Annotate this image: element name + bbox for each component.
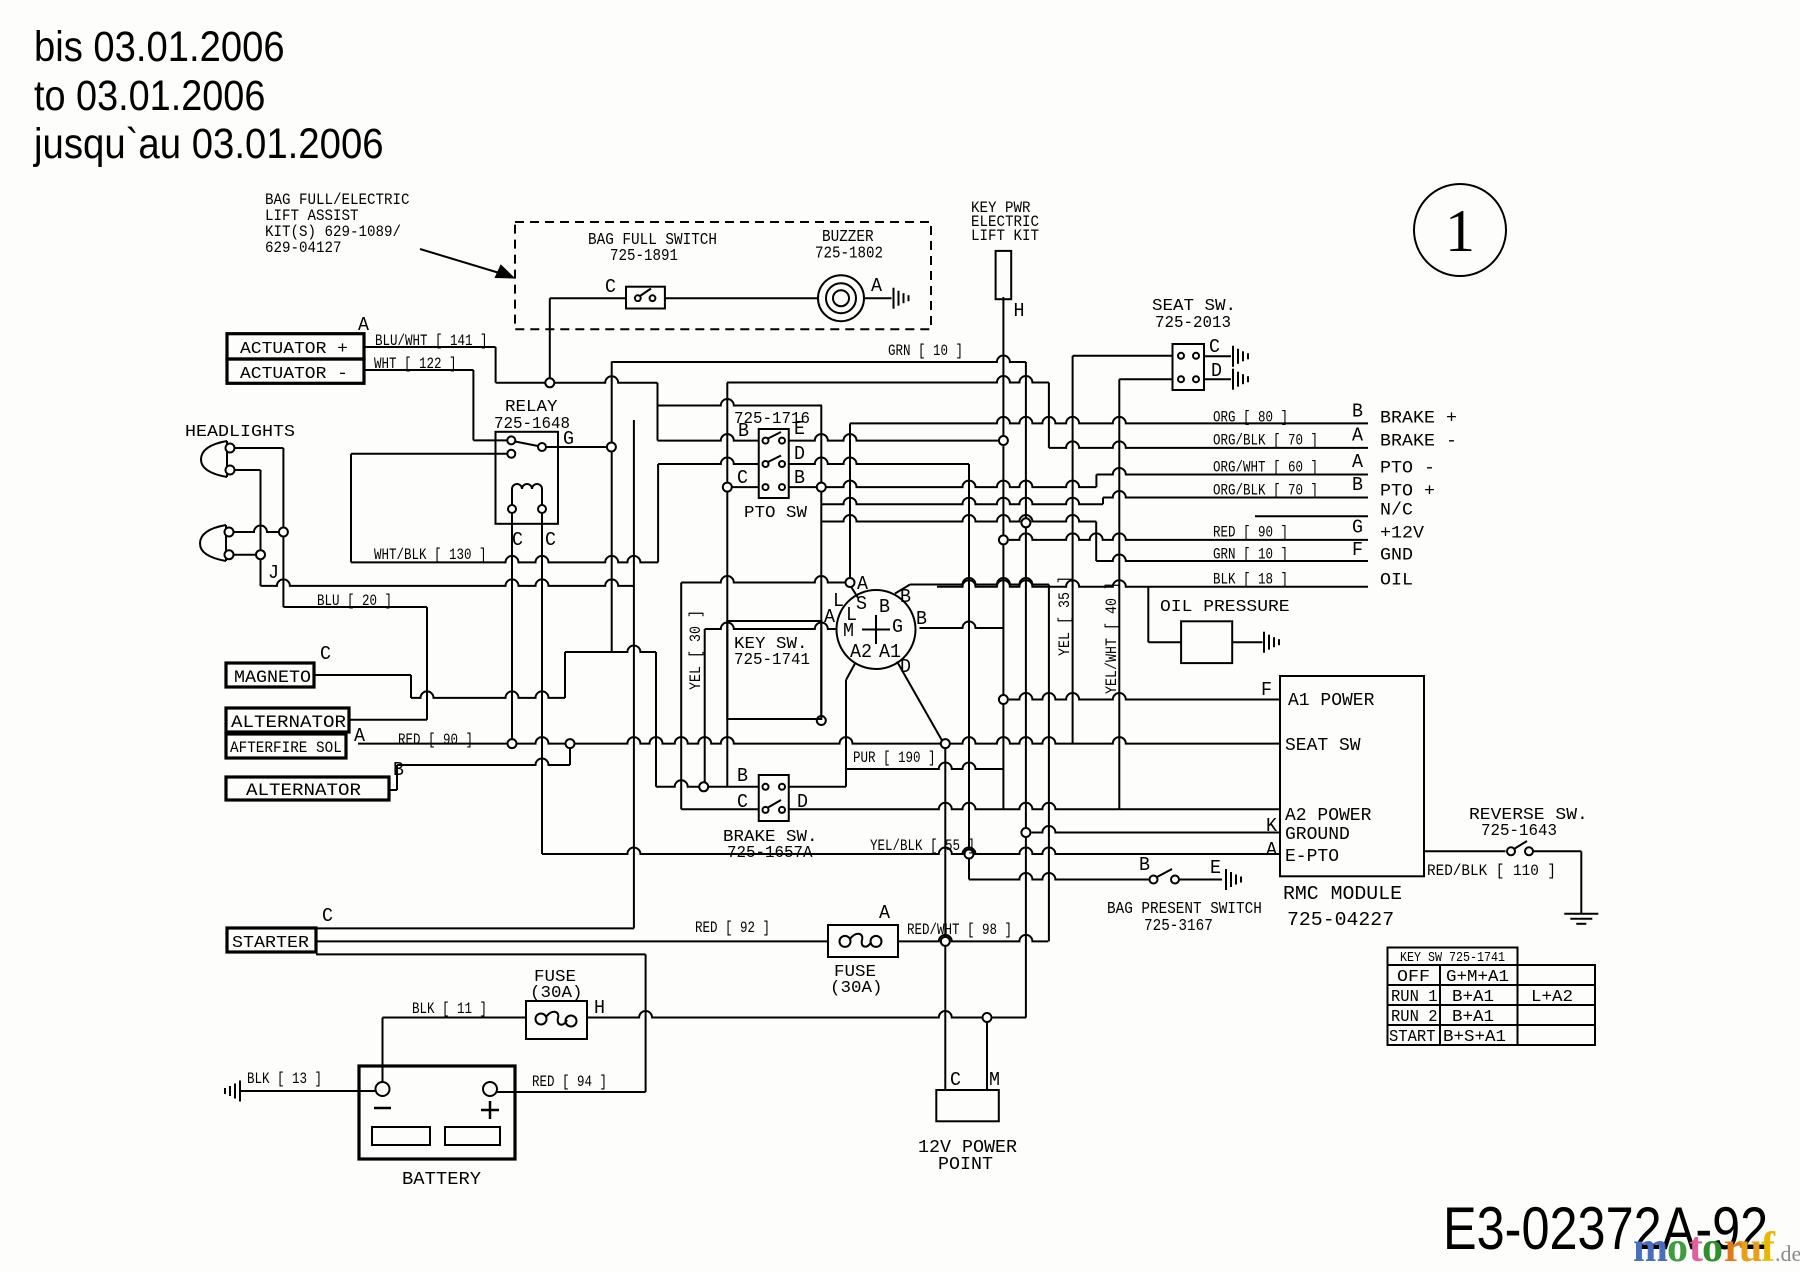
wire jog ORG/WHT [60] xyxy=(1095,475,1097,488)
wire headlight common (bottom) to J xyxy=(260,555,262,586)
svg-text:B: B xyxy=(794,467,805,489)
svg-text:B+S+A1: B+S+A1 xyxy=(1443,1027,1506,1046)
wire reverse switch to ground xyxy=(1580,851,1582,914)
key switch B pin diagonal xyxy=(895,585,910,594)
svg-text:B: B xyxy=(737,765,748,787)
node key switch A pin xyxy=(846,578,855,587)
wire GROUND K xyxy=(1032,826,1281,832)
svg-text:RUN 1: RUN 1 xyxy=(1391,987,1438,1006)
relay coil xyxy=(508,484,546,513)
wire bag full switch C drop xyxy=(549,298,551,383)
fuse 30A body 1 xyxy=(526,1001,587,1039)
svg-text:RED/WHT [ 98 ]: RED/WHT [ 98 ] xyxy=(907,921,1012,939)
magneto box xyxy=(226,663,314,687)
wire ORG/BLK [70] / BRAKE - xyxy=(1049,441,1368,448)
12V power point body xyxy=(936,1090,999,1121)
svg-text:725-1741: 725-1741 xyxy=(734,651,810,670)
svg-text:ACTUATOR +: ACTUATOR + xyxy=(240,340,348,359)
svg-text:GRN [ 10 ]: GRN [ 10 ] xyxy=(1213,546,1288,564)
svg-text:725-1643: 725-1643 xyxy=(1481,822,1557,841)
node bag full / actuator junction xyxy=(545,378,554,387)
wire RED [90] / +12V xyxy=(1009,533,1368,540)
ground seat D xyxy=(1233,369,1248,390)
brake switch 725-1657A body xyxy=(759,775,789,821)
svg-text:ORG/WHT [ 60 ]: ORG/WHT [ 60 ] xyxy=(1213,459,1318,477)
wire key switch A2 drop / PUR xyxy=(845,680,847,787)
wire headlight2 bottom xyxy=(234,554,261,556)
wire brake switch B right xyxy=(789,786,846,788)
wire key switch A xyxy=(681,576,844,583)
svg-text:BLK [ 11 ]: BLK [ 11 ] xyxy=(412,1000,487,1018)
svg-text:B+A1: B+A1 xyxy=(1452,1007,1494,1026)
svg-text:K: K xyxy=(1266,815,1278,837)
svg-text:A2 POWER: A2 POWER xyxy=(1285,806,1372,826)
wire relay coil C to YEL/BLK [55] xyxy=(541,509,543,854)
wire ORG [80] / BRAKE + xyxy=(850,417,1368,423)
buzzer 725-1802 symbol xyxy=(818,275,864,321)
svg-text:GRN [ 10 ]: GRN [ 10 ] xyxy=(888,342,963,360)
svg-text:A1: A1 xyxy=(879,641,901,663)
wire key switch M xyxy=(705,623,836,630)
svg-text:BLU/WHT [ 141 ]: BLU/WHT [ 141 ] xyxy=(375,332,488,350)
battery minus sign xyxy=(374,1107,391,1110)
svg-text:B: B xyxy=(738,420,749,442)
PTO switch body xyxy=(759,429,789,498)
wire BLK [18] / OIL xyxy=(937,580,1368,587)
wire PTO C ring down to key switch box corner xyxy=(820,487,822,720)
wire E-PTO to reverse switch xyxy=(1424,850,1506,852)
svg-text:D: D xyxy=(1211,360,1222,382)
svg-text:E-PTO: E-PTO xyxy=(1285,847,1339,867)
wire seat switch D ground xyxy=(1204,378,1231,380)
wire node to relay / bag full junction xyxy=(496,376,658,383)
svg-text:BRAKE +: BRAKE + xyxy=(1380,409,1457,429)
headlight lamp 2 xyxy=(200,525,234,561)
wire BLU/WHT [141] from actuator + xyxy=(364,346,496,348)
wire PTO row1 right to node xyxy=(789,434,998,440)
svg-text:L+A2: L+A2 xyxy=(1531,987,1573,1006)
node E-PTO tap xyxy=(965,850,974,859)
wire jog ORG/BLK [70] xyxy=(1102,498,1104,505)
svg-text:C: C xyxy=(605,276,616,298)
PTO switch enclosure left edge / key switch box bus xyxy=(726,383,728,787)
svg-text:BLK [ 18 ]: BLK [ 18 ] xyxy=(1213,571,1288,589)
wire starter C xyxy=(316,927,634,929)
wire seat switch C ground xyxy=(1204,355,1231,357)
svg-text:bis 03.01.2006: bis 03.01.2006 xyxy=(34,23,285,71)
wire ORG/WHT [60] / PTO - xyxy=(1096,468,1368,475)
wire PTO D / bag present bus xyxy=(968,464,970,880)
svg-text:E: E xyxy=(794,418,805,440)
wire elbow trunk to ORG/BLK [70] xyxy=(1048,383,1050,448)
svg-text:OIL PRESSURE: OIL PRESSURE xyxy=(1160,598,1290,617)
wire RED [90] / SEAT SW xyxy=(358,737,1280,743)
wire BLK [11] battery to fuse xyxy=(383,1017,527,1019)
reverse switch contacts xyxy=(1507,841,1533,855)
svg-text:C: C xyxy=(512,529,523,551)
node relay G junction xyxy=(607,443,616,452)
svg-text:A: A xyxy=(1266,839,1278,861)
wire key pwr lift kit bus xyxy=(1002,297,1004,809)
svg-text:G: G xyxy=(1352,517,1363,539)
svg-text:1: 1 xyxy=(1445,198,1475,264)
PTO switch contacts row1 xyxy=(763,432,786,444)
svg-text:C: C xyxy=(737,791,748,813)
svg-text:A: A xyxy=(824,606,836,628)
svg-text:BATTERY: BATTERY xyxy=(402,1170,481,1190)
key pwr lift kit body xyxy=(996,251,1012,299)
node A1 power tap xyxy=(999,695,1008,704)
wire seat switch D feed xyxy=(1119,378,1172,380)
wire YEL/WHT [40] bus / seat D xyxy=(1118,379,1120,809)
afterfire sol box xyxy=(226,734,346,758)
node RED [90] relay C junction xyxy=(508,739,517,748)
wire node line xyxy=(821,515,1096,522)
wire relay pin2 to WHT/BLK [130] xyxy=(350,454,352,563)
wire WHT [122] from actuator - xyxy=(364,369,473,371)
wire WHT/BLK [130] xyxy=(351,556,658,562)
wire headlight common (top) / BLU feed xyxy=(282,448,284,607)
wire bag full switch left xyxy=(550,297,626,299)
wire YEL [35] bus / seat C xyxy=(1072,356,1074,744)
battery box xyxy=(359,1066,515,1159)
svg-text:RED [ 94 ]: RED [ 94 ] xyxy=(532,1073,607,1091)
bag present switch contacts xyxy=(1150,869,1180,884)
svg-text:t: t xyxy=(1689,1225,1703,1271)
svg-text:E: E xyxy=(1210,857,1221,879)
svg-text:.de: .de xyxy=(1775,1241,1800,1266)
PTO switch contacts row2 xyxy=(763,456,786,468)
svg-text:D: D xyxy=(794,443,805,465)
wire A1 POWER xyxy=(1009,693,1280,700)
wire elbow to PTO row1 feed xyxy=(657,383,659,441)
wire seat switch C feed xyxy=(1073,355,1173,357)
svg-text:YEL [ 30 ]: YEL [ 30 ] xyxy=(687,610,705,690)
key switch S pin diagonal xyxy=(852,588,859,599)
svg-text:M: M xyxy=(989,1069,1000,1091)
svg-text:A: A xyxy=(879,902,891,924)
svg-text:A: A xyxy=(358,314,370,336)
wire YEL/BLK [55] / E-PTO xyxy=(542,848,1280,855)
wire N/C xyxy=(1255,515,1368,517)
svg-text:G: G xyxy=(563,428,574,450)
wire PTO row1 left xyxy=(658,434,759,440)
wire buzzer to ground xyxy=(864,297,892,299)
wire magneto to brake switch B xyxy=(655,652,657,787)
battery terminals xyxy=(376,1082,498,1096)
alternator box xyxy=(226,708,349,732)
svg-text:jusqu`au 03.01.2006: jusqu`au 03.01.2006 xyxy=(32,120,383,168)
seat switch contacts D xyxy=(1178,376,1199,382)
svg-text:725-1891: 725-1891 xyxy=(610,246,678,265)
svg-text:RMC MODULE: RMC MODULE xyxy=(1283,883,1402,905)
wire alternator B stub xyxy=(389,789,397,791)
svg-text:A: A xyxy=(871,275,883,297)
wire 12V power point M bus xyxy=(986,1018,988,1091)
wire RED [94] loop vertical xyxy=(645,954,647,1092)
wire battery negative to BLK [11] xyxy=(382,1018,384,1084)
svg-text:WHT [ 122 ]: WHT [ 122 ] xyxy=(374,355,457,373)
svg-text:725-1657A: 725-1657A xyxy=(727,844,813,863)
svg-text:RED [ 90 ]: RED [ 90 ] xyxy=(398,731,473,749)
svg-text:OIL: OIL xyxy=(1380,571,1413,591)
node RED [90] alternator junction xyxy=(566,739,575,748)
key switch cross xyxy=(862,615,890,644)
svg-text:B: B xyxy=(916,608,927,630)
wire oil sensor feed xyxy=(1148,641,1181,643)
wire magneto run xyxy=(411,691,565,697)
svg-text:ACTUATOR -: ACTUATOR - xyxy=(240,365,348,384)
wire BLU [20] down to alternator xyxy=(426,607,428,720)
wire RED/WHT [98] from fuse xyxy=(898,935,1048,941)
svg-text:H: H xyxy=(594,997,605,1019)
wire jog to GND line xyxy=(1095,522,1097,562)
svg-text:N/C: N/C xyxy=(1380,501,1413,521)
wire bag full switch to buzzer xyxy=(665,297,818,299)
svg-text:START: START xyxy=(1389,1027,1436,1046)
svg-text:o: o xyxy=(1702,1225,1723,1271)
svg-text:C: C xyxy=(950,1069,961,1091)
wire GRN [10] / GND xyxy=(1096,555,1368,562)
wire alternator B up to RED [90] xyxy=(569,744,571,765)
headlight lamp 1 xyxy=(201,441,235,477)
svg-text:LIFT KIT: LIFT KIT xyxy=(971,227,1039,245)
wire RED [94] xyxy=(497,1091,646,1093)
svg-text:RED/BLK [ 110 ]: RED/BLK [ 110 ] xyxy=(1427,862,1556,880)
wire alternator to BLU [20] xyxy=(349,719,427,721)
relay 725-1648 body xyxy=(496,432,559,524)
actuator + box xyxy=(227,334,364,359)
wire 12V power point C bus xyxy=(944,744,946,1090)
svg-text:SEAT SW: SEAT SW xyxy=(1285,736,1361,756)
bag full switch 725-1891 body xyxy=(626,287,665,309)
svg-text:C: C xyxy=(737,467,748,489)
wire PTO row2 left xyxy=(658,458,759,464)
wire key B to fuse bus xyxy=(1048,585,1050,942)
svg-text:725-2013: 725-2013 xyxy=(1155,314,1231,333)
wire oil sensor to ground xyxy=(1232,641,1262,643)
svg-text:C: C xyxy=(320,643,331,665)
svg-text:RED [ 90 ]: RED [ 90 ] xyxy=(1213,524,1288,542)
svg-text:STARTER: STARTER xyxy=(232,934,309,953)
svg-text:YEL/WHT [ 40 ]: YEL/WHT [ 40 ] xyxy=(1103,582,1121,694)
bag full / buzzer kit dashed enclosure xyxy=(515,222,931,329)
wire PUR [190] xyxy=(846,763,1003,770)
actuator - box xyxy=(227,359,364,383)
wire J / starter C bus xyxy=(633,420,635,928)
ground reverse switch xyxy=(1564,914,1598,924)
svg-text:A: A xyxy=(1352,425,1364,447)
svg-text:BRAKE -: BRAKE - xyxy=(1380,432,1457,452)
ground BLK [13] xyxy=(225,1081,240,1102)
wire BLK [18] drop to oil sensor xyxy=(1147,587,1149,643)
svg-text:A: A xyxy=(1352,451,1364,473)
svg-text:C: C xyxy=(322,905,333,927)
svg-text:m: m xyxy=(1633,1225,1668,1271)
wire ORG [80] to key switch A xyxy=(849,423,851,582)
node key switch box corner xyxy=(817,716,826,725)
svg-text:MAGNETO: MAGNETO xyxy=(234,668,311,688)
wire PTO trunk feed xyxy=(727,376,1049,382)
svg-text:G+M+A1: G+M+A1 xyxy=(1446,967,1509,986)
bag full switch contacts xyxy=(635,289,656,302)
svg-text:C: C xyxy=(1209,336,1220,358)
wire PTO D row to WHT/BLK xyxy=(657,464,659,562)
wire relay G out xyxy=(546,446,606,448)
wire PTO feed xyxy=(658,399,823,406)
alternator 2 box xyxy=(226,777,389,800)
svg-text:(30A): (30A) xyxy=(830,978,883,997)
svg-text:ORG [ 80 ]: ORG [ 80 ] xyxy=(1213,409,1288,427)
relay contacts xyxy=(507,436,546,457)
node headlight top junction xyxy=(279,528,288,537)
svg-text:+12V: +12V xyxy=(1380,524,1425,544)
node brake B junction xyxy=(699,782,708,791)
svg-text:YEL [ 35 ]: YEL [ 35 ] xyxy=(1056,576,1074,656)
wire BLU [20] run xyxy=(283,606,427,608)
svg-text:725-1648: 725-1648 xyxy=(494,414,570,433)
key switch A2 pin diagonal xyxy=(846,664,855,681)
node PTO enclosure right C xyxy=(817,483,826,492)
wire magneto elbow down xyxy=(410,675,412,698)
wire relay pin1 xyxy=(473,439,507,441)
wire brake switch C left xyxy=(681,808,759,810)
svg-text:F: F xyxy=(1261,679,1272,701)
svg-text:PTO +: PTO + xyxy=(1380,482,1435,502)
svg-text:WHT/BLK [ 130 ]: WHT/BLK [ 130 ] xyxy=(374,546,487,564)
svg-text:u: u xyxy=(1739,1225,1762,1271)
ground buzzer xyxy=(894,288,909,309)
wire to ORG/BLK jog xyxy=(821,498,1103,504)
node ground K tap xyxy=(1021,828,1030,837)
svg-text:725-1802: 725-1802 xyxy=(815,244,883,263)
wire magneto jog up xyxy=(564,652,566,698)
wire key switch G xyxy=(919,622,1003,629)
svg-text:H: H xyxy=(1014,300,1025,322)
svg-text:BLK [ 13 ]: BLK [ 13 ] xyxy=(247,1070,322,1088)
svg-text:B: B xyxy=(1139,854,1150,876)
svg-text:F: F xyxy=(1352,539,1363,561)
node PTO enclosure left C xyxy=(723,483,732,492)
svg-text:B: B xyxy=(1352,401,1363,423)
svg-text:A1 POWER: A1 POWER xyxy=(1288,691,1375,711)
ground bag present xyxy=(1226,869,1241,890)
wire brake switch B left xyxy=(656,780,759,786)
svg-text:f: f xyxy=(1761,1225,1776,1271)
svg-text:M: M xyxy=(843,620,854,642)
node headlight bottom junction xyxy=(256,550,265,559)
RMC module 725-04227 body xyxy=(1280,676,1424,876)
wire headlight1 bottom xyxy=(235,469,261,471)
wire BLK [11] fuse onward xyxy=(587,1011,1026,1017)
key switch 725-1741 circle xyxy=(837,590,916,669)
svg-text:PUR [ 190 ]: PUR [ 190 ] xyxy=(853,749,936,767)
svg-text:to 03.01.2006: to 03.01.2006 xyxy=(34,72,265,120)
wire GRN / ground bus xyxy=(1025,362,1027,1018)
svg-text:OFF: OFF xyxy=(1397,967,1430,986)
node RED/WHT junction xyxy=(941,937,950,946)
battery cell 2 xyxy=(445,1127,500,1145)
svg-text:POINT: POINT xyxy=(938,1155,993,1175)
svg-text:RUN 2: RUN 2 xyxy=(1391,1007,1438,1026)
wire WHT [122] down to relay pin1 xyxy=(472,370,474,440)
brake switch contacts row2 xyxy=(763,800,786,813)
starter box xyxy=(227,928,316,952)
svg-text:GND: GND xyxy=(1380,546,1413,566)
wire brake switch D right / A2 POWER xyxy=(789,803,1280,809)
svg-text:C: C xyxy=(545,529,556,551)
svg-text:629-04127: 629-04127 xyxy=(265,239,342,257)
svg-text:KEY SW 725-1741: KEY SW 725-1741 xyxy=(1400,951,1505,966)
PTO switch enclosure right edge xyxy=(820,406,822,488)
ground oil pressure xyxy=(1264,632,1279,653)
node ground bus tap xyxy=(1021,518,1030,527)
wire relay coil C to RED [90] xyxy=(511,509,513,744)
svg-text:ALTERNATOR: ALTERNATOR xyxy=(231,713,347,733)
wire key switch B upper xyxy=(910,578,1049,585)
seat switch 725-2013 body xyxy=(1173,344,1205,390)
node RED [90] key D junction xyxy=(941,739,950,748)
wire alternator B elbow xyxy=(396,765,398,790)
svg-text:ALTERNATOR: ALTERNATOR xyxy=(246,781,362,801)
watermark motoruf.de xyxy=(1633,1225,1800,1271)
svg-text:G: G xyxy=(892,616,903,638)
PTO switch contacts row3 xyxy=(763,484,786,490)
wire alternator B run xyxy=(397,759,570,765)
node PTO row1 tap xyxy=(999,436,1008,445)
wire ORG/BLK [70] / PTO + xyxy=(1103,491,1368,497)
svg-text:B+A1: B+A1 xyxy=(1452,987,1494,1006)
wire reverse switch to drop xyxy=(1534,850,1582,852)
wire bag present switch right xyxy=(1179,879,1223,881)
key switch label box xyxy=(727,621,821,719)
key switch table xyxy=(1388,948,1596,1046)
battery plus sign xyxy=(481,1101,499,1119)
brake switch contacts row1 xyxy=(763,784,786,790)
svg-text:PTO -: PTO - xyxy=(1380,459,1435,479)
fuse 1 element xyxy=(536,1012,577,1027)
oil pressure sensor body xyxy=(1181,621,1232,663)
wire headlight1 bottom down xyxy=(260,470,262,555)
fuse 30A body 2 xyxy=(828,925,898,957)
wire J headlights xyxy=(261,579,634,586)
svg-text:PTO SW: PTO SW xyxy=(744,504,808,523)
fuse 2 element xyxy=(840,934,882,947)
svg-text:AFTERFIRE SOL: AFTERFIRE SOL xyxy=(230,739,342,757)
svg-text:GROUND: GROUND xyxy=(1285,825,1350,845)
wire key A to brake switch C xyxy=(680,583,682,810)
svg-text:725-3167: 725-3167 xyxy=(1144,916,1213,935)
node +12V tap xyxy=(999,535,1008,544)
wire magneto jog xyxy=(565,646,656,653)
wire YEL [30] bus / key M to brake B xyxy=(704,629,706,787)
wire BLU/WHT [141] elbow xyxy=(495,347,497,383)
circled sheet number 1 xyxy=(1414,184,1506,276)
wire relay pin2 xyxy=(351,453,507,455)
wire headlight2 top xyxy=(234,526,284,533)
key switch D pin diagonal xyxy=(897,662,942,741)
wire bag present switch left xyxy=(969,873,1150,880)
svg-text:ORG/BLK [ 70 ]: ORG/BLK [ 70 ] xyxy=(1213,432,1318,450)
svg-text:ORG/BLK [ 70 ]: ORG/BLK [ 70 ] xyxy=(1213,482,1318,500)
battery cell 1 xyxy=(372,1127,430,1145)
node 12V power point M tap xyxy=(983,1013,992,1022)
svg-text:B: B xyxy=(879,596,890,618)
svg-text:B: B xyxy=(1352,474,1363,496)
svg-text:725-04227: 725-04227 xyxy=(1287,909,1394,931)
wire RED [92] to fuse xyxy=(316,940,828,942)
svg-text:(30A): (30A) xyxy=(530,983,583,1002)
